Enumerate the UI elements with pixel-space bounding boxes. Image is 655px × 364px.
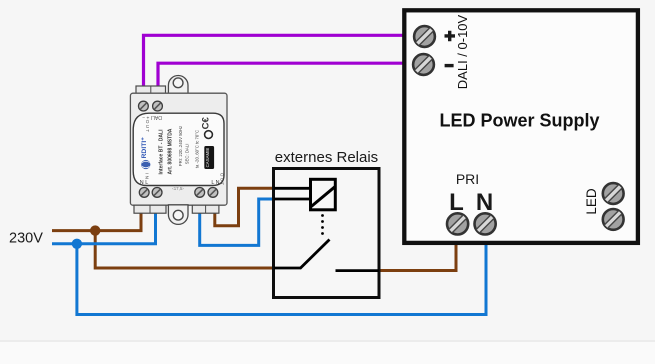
relay box: externes Relais enclosure [274,169,380,298]
terminal: PRI N screw [475,213,496,234]
svg-text:N L: N L [140,180,148,186]
wire: DALI + purple from module to power supply [144,35,405,90]
module body [130,93,227,205]
module screw terminal bottom 2 [152,188,162,198]
module top mounting ear [168,76,188,94]
wire: 230V N blue feed to module IN [52,209,156,244]
wire: coil feed lower (inside relay) [274,198,311,201]
svg-text:O U T: O U T [220,173,225,185]
terminal: PRI L screw [447,213,468,234]
wire: switch contact (inside relay) [336,269,380,272]
module bottom mounting ear [168,205,188,225]
module top terminal block [136,86,166,94]
relay actuator dotted link [321,214,324,235]
svg-text:N: N [476,189,493,216]
module screw terminal bottom 1 [139,188,149,198]
label: - polarity [445,64,454,67]
svg-text:O U T: O U T [145,120,150,132]
svg-text:L: L [449,189,464,216]
LED power supply enclosure U2 [404,10,638,243]
wire: blue branch from node to power supply N [77,242,486,315]
terminal: DALI + screw [414,26,435,47]
module screw terminal top 1 [139,101,149,111]
module bottom terminal block right [192,205,219,213]
svg-text:CASAMBI: CASAMBI [205,148,210,168]
wire: DALI - purple from module to power supply [158,63,404,90]
module screw terminal top 2 [153,101,163,111]
node: blue junction dot [72,239,82,249]
wire: switch feed (inside relay) [274,267,301,270]
module logo (blue globe + wordmark) [141,137,151,169]
svg-text:ta -20..60°C tc 70°C: ta -20..60°C tc 70°C [194,130,199,168]
svg-text:230V: 230V [9,231,43,247]
node: brown junction dot [90,225,100,235]
terminal: LED - screw [603,209,624,230]
svg-text:L N: L N [211,180,219,186]
svg-text:‹17,5›: ‹17,5› [172,186,184,191]
svg-text:RDITI⁺: RDITI⁺ [141,137,148,159]
svg-text:PRI: PRI [456,171,479,187]
svg-text:C€: C€ [201,117,212,130]
relay switch blade S1 [300,240,330,269]
module print: enclosure circle symbol [205,131,213,139]
terminal: LED + screw [603,183,624,204]
svg-text:LED: LED [584,188,599,215]
svg-text:DALI / 0-10V: DALI / 0-10V [455,14,470,89]
svg-text:externes Relais: externes Relais [275,149,378,166]
wire: 230V L brown feed to module IN [52,209,141,231]
module label plate [133,113,224,185]
svg-text:PRI: 220..240V 50Hz: PRI: 220..240V 50Hz [178,126,183,166]
module screw terminal bottom 3 [195,188,205,198]
module screw terminal bottom 4 [208,188,218,198]
module casambi badge [204,146,214,169]
relay coil diagonal [311,186,336,207]
wire: brown from relay switch to power supply L [380,242,456,271]
terminal: DALI - screw [413,54,434,75]
svg-text:LED Power Supply: LED Power Supply [439,111,599,131]
wire: module OUT N blue to relay coil [200,199,273,245]
DALI interface module U1 (photo) [130,76,227,225]
relay coil K1 [311,179,336,210]
svg-text:Art. 800698 MSTDA: Art. 800698 MSTDA [168,128,174,174]
svg-text:I N: I N [145,173,150,179]
label: + polarity [445,31,456,42]
wire: module OUT L brown to relay coil [215,188,273,225]
module bottom terminal block left [134,205,166,213]
wire: brown branch from node to relay switch [95,231,273,268]
svg-text:Interface BT - DALI: Interface BT - DALI [159,129,165,175]
svg-text:SEC: DALI: SEC: DALI [184,144,189,165]
wire: coil feed upper (inside relay) [274,187,311,190]
